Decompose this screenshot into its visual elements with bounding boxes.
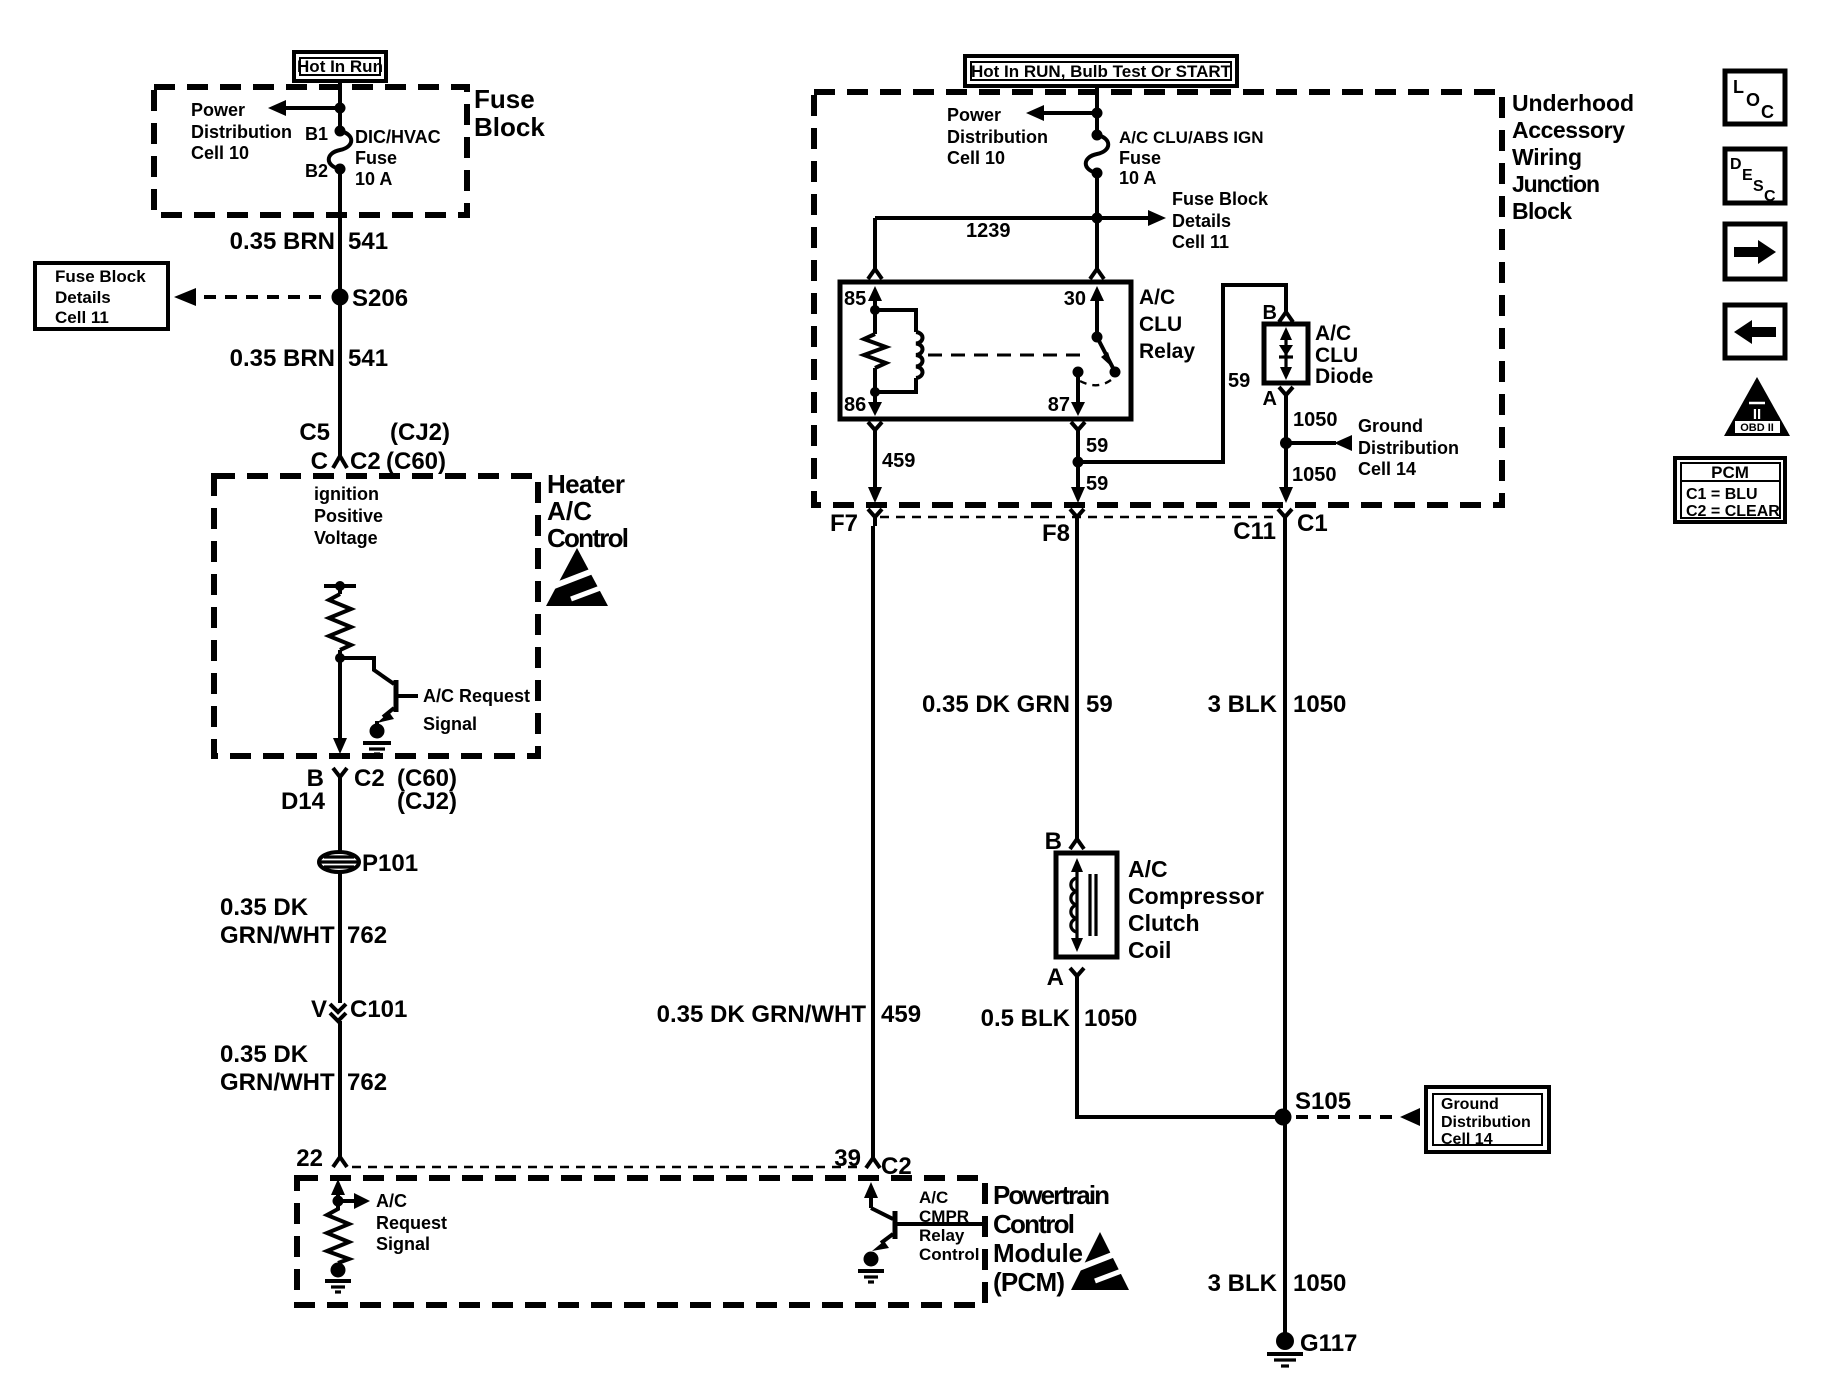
svg-text:Junction: Junction	[1512, 171, 1600, 197]
wire arrow to Power Distribution Cell 10	[1026, 105, 1097, 121]
svg-text:CLU: CLU	[1315, 344, 1358, 367]
wire pin 39 into PCM with up arrow	[864, 1182, 878, 1208]
svg-text:Cell 14: Cell 14	[1441, 1131, 1493, 1148]
connector F7	[830, 509, 882, 537]
svg-text:C2: C2	[354, 765, 385, 792]
label Heater A/C Control	[547, 469, 629, 553]
connector F8	[1042, 509, 1084, 547]
Powertrain Control Module dashed boundary	[297, 1178, 985, 1305]
connector into relay pin 30	[1090, 263, 1104, 279]
ESD sensitivity symbol PCM	[1071, 1232, 1132, 1290]
legend LOC icon	[1725, 71, 1785, 124]
relay actuation dashed link	[928, 354, 1082, 357]
wire down to relay pin 30 connector	[1095, 218, 1099, 263]
wire arrow to Fuse Block Details Cell 11	[1097, 210, 1166, 226]
svg-text:C101: C101	[350, 996, 407, 1023]
svg-text:C2 = CLEAR: C2 = CLEAR	[1686, 503, 1780, 520]
wire pin 22 into PCM with up arrow	[331, 1179, 345, 1201]
wire junction down to F8 with arrow	[1071, 462, 1085, 503]
fuse DIC/HVAC 10A	[329, 126, 352, 175]
svg-text:0.35 DK: 0.35 DK	[220, 894, 309, 921]
node switch pivot	[1092, 332, 1103, 343]
wire fuse B2 down to S206	[338, 169, 342, 297]
svg-text:(C60): (C60)	[386, 448, 446, 475]
fuse block dashed boundary	[154, 87, 467, 215]
svg-text:Block: Block	[1512, 198, 1572, 224]
svg-text:22: 22	[296, 1145, 323, 1172]
svg-text:S206: S206	[352, 285, 408, 312]
svg-text:0.35 BRN: 0.35 BRN	[230, 228, 335, 255]
svg-text:1239: 1239	[966, 220, 1011, 242]
svg-text:Fuse: Fuse	[355, 148, 397, 168]
ground inside PCM left	[325, 1263, 351, 1293]
svg-text:459: 459	[881, 1001, 921, 1028]
svg-text:Details: Details	[1172, 211, 1231, 231]
svg-text:85: 85	[844, 288, 866, 310]
svg-text:Relay: Relay	[919, 1226, 965, 1245]
svg-text:59: 59	[1086, 473, 1108, 495]
svg-text:A: A	[1047, 964, 1064, 991]
ground G117	[1267, 1330, 1357, 1366]
node switch contact 87	[1073, 367, 1084, 378]
svg-text:C2: C2	[350, 448, 381, 475]
pin 30	[1064, 286, 1104, 337]
svg-text:C11: C11	[1233, 518, 1276, 545]
svg-text:PCM: PCM	[1711, 463, 1749, 482]
svg-text:Power: Power	[191, 100, 245, 120]
svg-text:1050: 1050	[1292, 464, 1337, 486]
label A/C Compressor Clutch Coil	[1128, 856, 1264, 963]
relay switch blade	[1097, 337, 1121, 378]
label Fuse Block Details Cell 11	[1172, 189, 1269, 252]
wire from Hot In Run to fuse B1	[338, 81, 342, 131]
svg-text:GRN/WHT: GRN/WHT	[220, 1069, 335, 1096]
svg-text:3 BLK: 3 BLK	[1208, 691, 1278, 718]
pin 39 connector into PCM	[834, 1145, 911, 1180]
svg-text:C2: C2	[881, 1153, 912, 1180]
pin 85	[844, 286, 882, 310]
svg-text:Powertrain: Powertrain	[993, 1180, 1110, 1210]
wire pin 86 down to F7 with arrow	[868, 438, 882, 503]
wire coil A to S105	[1077, 985, 1285, 1117]
node S105 splice	[1275, 1109, 1292, 1126]
diode A/C CLU box	[1264, 324, 1308, 383]
svg-text:A/C: A/C	[1128, 856, 1168, 882]
svg-text:541: 541	[348, 228, 388, 255]
wire label 3 BLK 1050	[1208, 691, 1347, 718]
svg-text:O: O	[1746, 90, 1760, 110]
svg-text:762: 762	[347, 922, 387, 949]
node junction resistor to transistor	[335, 653, 345, 663]
svg-text:762: 762	[347, 1069, 387, 1096]
label A/C CLU Relay	[1139, 286, 1195, 363]
svg-text:Cell 14: Cell 14	[1358, 459, 1416, 479]
label Powertrain Control Module (PCM)	[993, 1180, 1110, 1297]
svg-text:Heater: Heater	[547, 469, 625, 499]
wire C1 down to G117	[1283, 526, 1287, 1338]
node S206 splice	[332, 289, 349, 306]
connector into relay pin 85	[868, 263, 882, 279]
svg-text:Clutch: Clutch	[1128, 910, 1200, 936]
svg-text:Hot In Run: Hot In Run	[297, 57, 383, 76]
svg-text:(CJ2): (CJ2)	[397, 788, 457, 815]
label A/C Request Signal in PCM	[376, 1191, 447, 1254]
label A/C CLU/ABS IGN Fuse 10 A	[1119, 128, 1264, 188]
connector B C2 (C60) D14 (CJ2)	[281, 765, 457, 815]
dashed throw arc	[1080, 380, 1111, 385]
svg-text:(PCM): (PCM)	[993, 1267, 1065, 1297]
svg-text:Fuse: Fuse	[474, 84, 535, 114]
svg-text:DIC/HVAC: DIC/HVAC	[355, 127, 441, 147]
node junction coil bottom	[870, 387, 880, 397]
svg-text:Ground: Ground	[1441, 1096, 1499, 1113]
legend OBD II icon	[1724, 377, 1790, 436]
wire junction down to module edge with arrow	[333, 658, 347, 754]
label Underhood Accessory Wiring Junction Block	[1512, 90, 1634, 224]
svg-text:Hot In RUN, Bulb Test Or START: Hot In RUN, Bulb Test Or START	[971, 62, 1232, 81]
svg-text:Control: Control	[919, 1245, 979, 1264]
Underhood Accessory Wiring Junction Block dashed boundary	[814, 92, 1502, 505]
svg-text:CMPR: CMPR	[919, 1207, 969, 1226]
wire C101 to PCM pin 22	[338, 1021, 342, 1150]
svg-text:59: 59	[1228, 370, 1250, 392]
svg-text:Cell 11: Cell 11	[1172, 232, 1229, 252]
svg-text:0.35 DK GRN/WHT: 0.35 DK GRN/WHT	[657, 1001, 867, 1028]
svg-text:F7: F7	[830, 510, 858, 537]
svg-text:Underhood: Underhood	[1512, 90, 1634, 116]
svg-text:Cell 10: Cell 10	[947, 148, 1005, 168]
legend left arrow icon	[1725, 305, 1785, 358]
relay A/C CLU box	[840, 282, 1131, 419]
ground inside PCM right	[858, 1252, 884, 1283]
svg-text:0.35 DK: 0.35 DK	[220, 1041, 309, 1068]
connector C2 (C60) at heater A/C control	[311, 448, 446, 475]
wire 1239 branch left to relay pin 85	[875, 216, 1097, 220]
connector below relay pin 87	[1071, 422, 1085, 438]
svg-text:1050: 1050	[1084, 1005, 1137, 1032]
svg-text:Coil: Coil	[1128, 937, 1171, 963]
svg-text:Request: Request	[376, 1213, 447, 1233]
svg-text:C5: C5	[299, 419, 330, 446]
wire label 0.5 BLK 1050	[981, 1005, 1138, 1032]
svg-text:Block: Block	[474, 112, 545, 142]
svg-text:Distribution: Distribution	[1358, 438, 1459, 458]
node junction ground distribution tap	[1280, 437, 1292, 449]
transistor A/C request (PNP)	[340, 658, 418, 725]
relay coil resistor	[864, 310, 886, 392]
node Fuse Block Details Cell 11 reference box	[35, 263, 168, 329]
node junction net 59	[1073, 457, 1084, 468]
node junction circuit 1239	[1092, 213, 1103, 224]
wire label 0.35 DK GRN/WHT 762	[220, 894, 387, 949]
node junction power distribution tap	[1092, 108, 1103, 119]
resistor pull-up in heater control	[329, 586, 351, 658]
svg-text:3 BLK: 3 BLK	[1208, 1270, 1278, 1297]
wire dashed reference from S206 to Fuse Block Details	[174, 288, 328, 306]
node ignition voltage rail	[324, 581, 356, 591]
svg-text:Fuse: Fuse	[1119, 148, 1161, 168]
svg-text:0.35 BRN: 0.35 BRN	[230, 345, 335, 372]
svg-text:39: 39	[834, 1145, 861, 1172]
svg-text:ignition: ignition	[314, 484, 379, 504]
relay coil winding	[875, 310, 923, 392]
pin 22 connector into PCM	[296, 1145, 347, 1172]
svg-text:Wiring: Wiring	[1512, 144, 1582, 170]
resistor A/C request pull in PCM	[327, 1201, 349, 1263]
svg-text:D: D	[1730, 156, 1742, 173]
svg-text:A: A	[1263, 388, 1277, 410]
node Hot In RUN Bulb Test Or START label box	[965, 56, 1237, 86]
wire P101 to C101	[338, 872, 342, 1003]
svg-text:P101: P101	[362, 850, 418, 877]
svg-text:Distribution: Distribution	[947, 127, 1048, 147]
wire label 0.35 DK GRN/WHT 762	[220, 1041, 387, 1096]
svg-text:(CJ2): (CJ2)	[390, 419, 450, 446]
wire label 0.35 BRN 541	[230, 345, 388, 372]
svg-text:B1: B1	[305, 124, 328, 144]
wire F7 down to PCM pin 39	[871, 526, 875, 1151]
label Power Distribution Cell 10	[947, 105, 1048, 168]
connector clutch coil pin A	[1047, 964, 1084, 991]
svg-text:A/C: A/C	[1139, 286, 1175, 309]
legend DESC icon	[1725, 149, 1785, 205]
connector diode pin A	[1263, 387, 1293, 410]
svg-text:459: 459	[882, 450, 915, 472]
transistor A/C CMPR relay control (NPN)	[871, 1208, 985, 1251]
svg-text:L: L	[1733, 77, 1744, 97]
svg-text:Signal: Signal	[423, 714, 477, 734]
connector diode pin B	[1263, 302, 1293, 324]
svg-text:II: II	[1753, 406, 1761, 423]
svg-text:86: 86	[844, 394, 866, 416]
svg-text:59: 59	[1086, 435, 1108, 457]
A/C compressor clutch coil box	[1056, 853, 1117, 957]
svg-text:C1 = BLU: C1 = BLU	[1686, 486, 1758, 503]
svg-text:A/C: A/C	[547, 496, 592, 526]
connector C11 C1	[1233, 509, 1327, 545]
svg-text:Accessory: Accessory	[1512, 117, 1625, 143]
ground inside heater control	[363, 724, 391, 755]
svg-text:Cell 10: Cell 10	[191, 143, 249, 163]
svg-text:C1: C1	[1297, 510, 1328, 537]
wire arrow to Power Distribution Cell 10	[268, 100, 340, 116]
label Ground Distribution Cell 14	[1358, 416, 1459, 479]
wire down to relay pin 85 connector	[873, 218, 877, 263]
svg-text:10 A: 10 A	[1119, 168, 1156, 188]
wire label 0.35 DK GRN/WHT 459	[657, 1001, 921, 1028]
svg-text:59: 59	[1086, 691, 1113, 718]
svg-text:541: 541	[348, 345, 388, 372]
svg-text:B: B	[1263, 302, 1277, 324]
connector below relay pin 86	[868, 422, 882, 438]
fuse A/C CLU/ABS IGN 10A	[1086, 130, 1109, 179]
fuse block title	[474, 84, 545, 142]
svg-text:A/C: A/C	[1315, 322, 1351, 345]
svg-text:Fuse Block: Fuse Block	[55, 267, 146, 286]
thin dashed connector face line F7-C1	[880, 516, 1278, 519]
svg-text:GRN/WHT: GRN/WHT	[220, 922, 335, 949]
node junction A/C request signal	[333, 1196, 344, 1207]
wire pin 87 down to junction	[1076, 438, 1080, 462]
node Ground Distribution Cell 14 reference box	[1426, 1087, 1549, 1152]
svg-text:G117: G117	[1300, 1330, 1357, 1357]
clutch coil element	[1071, 858, 1096, 952]
svg-text:C: C	[1761, 102, 1774, 122]
svg-text:Compressor: Compressor	[1128, 883, 1264, 909]
svg-text:Details: Details	[55, 288, 111, 307]
svg-text:A/C: A/C	[919, 1188, 948, 1207]
svg-text:30: 30	[1064, 288, 1086, 310]
svg-text:0.5 BLK: 0.5 BLK	[981, 1005, 1071, 1032]
svg-text:Control: Control	[547, 523, 629, 553]
svg-text:87: 87	[1048, 394, 1070, 416]
wire label 0.35 BRN 541	[230, 228, 388, 255]
wire connector to P101	[338, 787, 342, 853]
connector clutch coil pin B	[1045, 828, 1084, 855]
svg-text:C: C	[311, 448, 328, 475]
legend PCM connector color box	[1675, 458, 1785, 522]
pin C5 (CJ2)	[299, 419, 450, 446]
wire label 0.35 DK GRN 59	[922, 691, 1113, 718]
wire arrow right A/C request signal	[338, 1193, 370, 1209]
svg-text:0.35 DK GRN: 0.35 DK GRN	[922, 691, 1070, 718]
Heater A/C Control module dashed boundary	[214, 476, 538, 756]
svg-text:OBD II: OBD II	[1740, 422, 1774, 434]
wire diode A down to C1	[1279, 401, 1293, 503]
svg-text:B2: B2	[305, 161, 328, 181]
svg-text:1050: 1050	[1293, 1270, 1346, 1297]
node Hot In Run label box	[294, 52, 386, 81]
thin dashed connector face line	[352, 1166, 858, 1169]
svg-text:Cell 11: Cell 11	[55, 308, 109, 327]
svg-text:A/C: A/C	[376, 1191, 407, 1211]
label ignition Positive Voltage	[314, 484, 383, 548]
svg-text:S105: S105	[1295, 1088, 1351, 1115]
node junction at power distribution tap	[335, 103, 346, 114]
label A/C CMPR Relay Control	[919, 1188, 979, 1264]
svg-text:Relay: Relay	[1139, 340, 1195, 363]
connector C101	[311, 996, 407, 1023]
wire dashed reference to Ground Distribution Cell 14	[1296, 1108, 1420, 1126]
svg-text:Control: Control	[993, 1209, 1075, 1239]
wire label 3 BLK 1050 lower	[1208, 1270, 1347, 1297]
svg-text:V: V	[311, 996, 327, 1023]
svg-text:E: E	[1742, 167, 1753, 184]
svg-text:A/C Request: A/C Request	[423, 686, 530, 706]
pin 86	[844, 392, 882, 416]
svg-text:Diode: Diode	[1315, 365, 1373, 388]
node junction coil top	[870, 305, 880, 315]
wire F8 down to clutch coil B	[1075, 526, 1079, 833]
svg-text:Positive: Positive	[314, 506, 383, 526]
svg-text:Module: Module	[993, 1238, 1083, 1268]
legend right arrow icon	[1725, 224, 1785, 279]
diode element	[1279, 327, 1293, 380]
svg-text:Power: Power	[947, 105, 1001, 125]
svg-text:Distribution: Distribution	[191, 122, 292, 142]
svg-text:CLU: CLU	[1139, 313, 1182, 336]
wire fuse to junction	[1095, 173, 1099, 218]
svg-text:1050: 1050	[1293, 409, 1338, 431]
wire from Hot In RUN to fuse	[1095, 86, 1099, 135]
svg-text:A/C CLU/ABS IGN: A/C CLU/ABS IGN	[1119, 128, 1264, 147]
svg-text:F8: F8	[1042, 520, 1070, 547]
label Power Distribution Cell 10	[191, 100, 292, 163]
label DIC/HVAC Fuse 10 A	[355, 127, 441, 189]
svg-text:Distribution: Distribution	[1441, 1114, 1531, 1131]
svg-text:Fuse Block: Fuse Block	[1172, 189, 1269, 209]
svg-text:1050: 1050	[1293, 691, 1346, 718]
wire S206 down to connector C2	[338, 297, 342, 450]
svg-text:10 A: 10 A	[355, 169, 392, 189]
wire net 59 to diode B	[1078, 285, 1286, 462]
svg-text:Voltage: Voltage	[314, 528, 378, 548]
ESD sensitivity symbol	[546, 548, 611, 606]
svg-text:Ground: Ground	[1358, 416, 1423, 436]
svg-text:Signal: Signal	[376, 1234, 430, 1254]
grommet P101	[319, 850, 418, 877]
label A/C Request Signal	[423, 686, 530, 734]
pin 87	[1048, 372, 1085, 416]
svg-text:D14: D14	[281, 788, 326, 815]
label A/C CLU Diode	[1315, 322, 1373, 388]
svg-text:C: C	[1764, 188, 1776, 205]
svg-text:S: S	[1753, 178, 1764, 195]
wire arrow to Ground Distribution Cell 14	[1286, 435, 1352, 451]
